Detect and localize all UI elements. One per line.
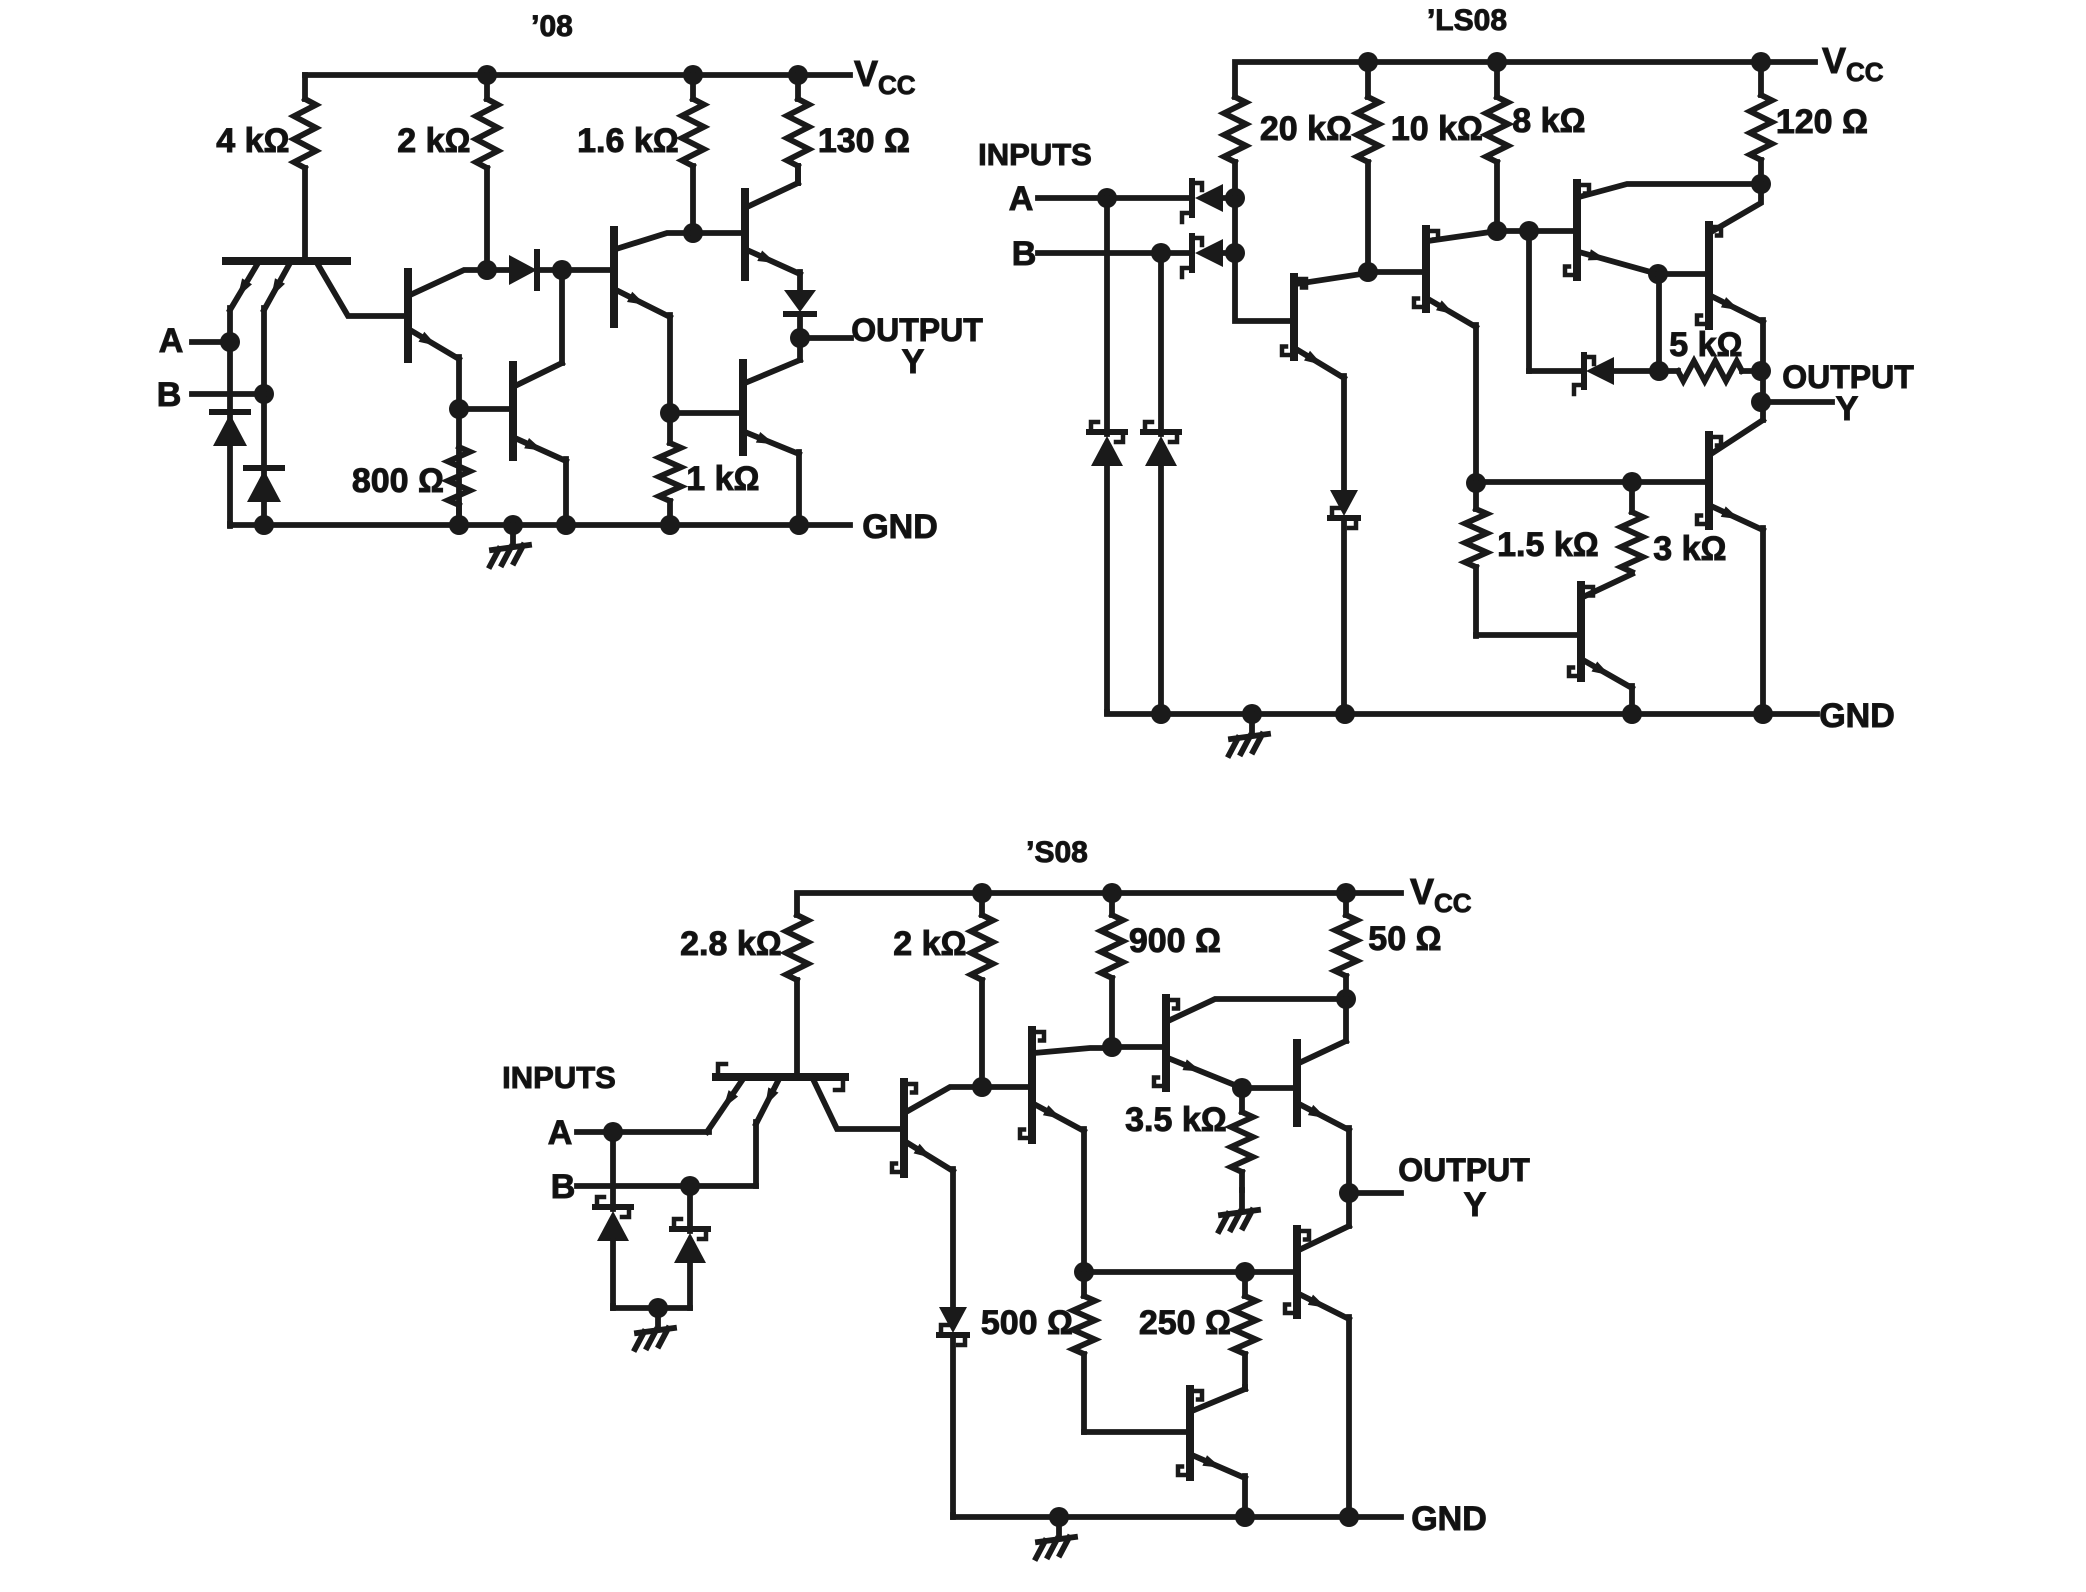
svg-text:2.8 kΩ: 2.8 kΩ: [680, 925, 782, 963]
resistor R6 1 kOhm: [659, 443, 681, 525]
transistor Q10 base bar (Darlington 2): [1697, 225, 1721, 326]
wire input A clamp ('LS08): [1104, 198, 1110, 434]
node GND tap: [503, 515, 523, 535]
svg-text:’LS08: ’LS08: [1427, 4, 1507, 37]
wire clamp diodes to ground: [613, 1306, 690, 1308]
transistor Q10 emitter: [1711, 296, 1763, 322]
node 500 top: [1074, 1262, 1094, 1282]
node: VCC/2k junction: [477, 65, 497, 85]
wire Q2 collector: [410, 270, 487, 295]
label R16 900 Ohm: [1129, 922, 1221, 960]
transistor Q2 emitter: [410, 330, 459, 359]
svg-text:GND: GND: [862, 508, 938, 546]
node 5k left: [1649, 361, 1669, 381]
label Y ('LS08): [1836, 390, 1859, 428]
transistor Q18 base bar (bottom output): [1285, 1229, 1309, 1315]
wire Q3 emitter down: [667, 315, 673, 443]
wire Q14 collector: [906, 1087, 982, 1112]
VCC rail ('S08): [797, 893, 1401, 915]
label Y ('08): [902, 343, 925, 381]
transistor Q11 emitter: [1711, 506, 1763, 530]
wire node to Q10 base: [1658, 271, 1709, 277]
label R6 1 kOhm: [686, 460, 759, 498]
wire Q17 emitter to output: [1346, 1128, 1352, 1193]
wire node to Q8 base: [1368, 269, 1426, 275]
wire input A ('S08): [577, 1129, 709, 1135]
resistor R11 5 kOhm: [1659, 361, 1761, 381]
wire node to Q4 base: [693, 230, 745, 236]
svg-text:3 kΩ: 3 kΩ: [1653, 530, 1726, 568]
node VCC/10k: [1358, 52, 1378, 72]
ground symbol (rail 'S08): [1036, 1517, 1075, 1558]
svg-text:20 kΩ: 20 kΩ: [1260, 110, 1352, 148]
circuit 'S08 title: [1026, 836, 1088, 869]
svg-text:OUTPUT: OUTPUT: [1398, 1152, 1530, 1188]
resistor R1 4 kOhm: [294, 75, 316, 259]
label R12 1.5 kOhm: [1497, 526, 1599, 564]
transistor Q14 base bar: [892, 1082, 916, 1174]
resistor R5 800 Ohm: [448, 447, 470, 525]
label R2 2 kOhm: [397, 122, 470, 160]
diode CR2 (input B clamp): [246, 468, 282, 502]
wire Q4 collector: [747, 166, 798, 207]
schottky diode Q7 emitter: [1330, 490, 1358, 714]
node output Y ('S08): [1339, 1183, 1359, 1203]
node VCC/50: [1336, 883, 1356, 903]
wire squaring top ('S08): [1084, 1269, 1245, 1275]
transistor Q13 base bar ('S08 input): [716, 1064, 845, 1090]
diode CR4 (output): [784, 290, 816, 338]
svg-text:B: B: [1012, 235, 1037, 273]
wire Q8 collector: [1428, 231, 1497, 241]
wire node to Q17 base: [1242, 1085, 1297, 1091]
transistor Q15 emitter: [1034, 1104, 1084, 1131]
VCC rail ('LS08): [1235, 62, 1815, 97]
wire Q12 collector: [1583, 574, 1632, 597]
label R20 250 Ohm: [1139, 1304, 1231, 1342]
transistor Q6 base bar: [739, 363, 747, 452]
svg-text:50 Ω: 50 Ω: [1368, 920, 1441, 958]
transistor Q3 base bar: [610, 230, 618, 324]
wire input B ('S08): [577, 1183, 756, 1189]
transistor Q16 base bar: [1154, 998, 1178, 1088]
VCC rail ('08): [305, 72, 850, 78]
wire input B: [192, 391, 264, 397]
wire Q11 collector: [1711, 420, 1763, 454]
transistor Q9 emitter: [1579, 249, 1658, 274]
transistor Q17 base bar (top output): [1293, 1043, 1301, 1123]
node Q15 collector / 900: [1102, 1037, 1122, 1057]
svg-text:CC: CC: [878, 70, 916, 100]
label R9 8 kOhm: [1512, 102, 1585, 140]
VCC label ('08): [854, 53, 916, 100]
label input B ('S08): [551, 1168, 576, 1206]
node 3k top: [1622, 472, 1642, 492]
transistor Q1 emitter 2: [264, 263, 290, 310]
label R19 500 Ohm: [981, 1304, 1073, 1342]
node Q3 collector / 1.6k: [683, 223, 703, 243]
node Q2 collector / 2k: [477, 260, 497, 280]
wire Q5 emitter down: [563, 459, 569, 525]
node 800 Ohm bottom: [449, 515, 469, 535]
wire Q3 collector: [616, 233, 693, 249]
resistor R18 3.5 kOhm: [1231, 1088, 1253, 1190]
transistor Q13 emitter 2: [756, 1079, 779, 1124]
svg-text:10 kΩ: 10 kΩ: [1391, 110, 1483, 148]
svg-text:900 Ω: 900 Ω: [1129, 922, 1221, 960]
wire Q6 collector: [745, 338, 800, 383]
transistor Q6 emitter: [745, 432, 799, 454]
resistor R16 900 Ohm: [1101, 893, 1123, 1047]
wire Q11 emitter to GND: [1760, 528, 1766, 714]
schottky clamp diode A ('LS08): [1089, 422, 1125, 713]
node VCC/2k ('S08): [972, 883, 992, 903]
node output Y ('08): [790, 328, 810, 348]
node 800 Ohm top: [449, 399, 469, 419]
node Q9 collector / 120: [1751, 174, 1771, 194]
svg-text:130 Ω: 130 Ω: [818, 122, 910, 160]
transistor Q4 emitter: [747, 250, 800, 274]
wire 1.5k bottom to Q12 base: [1476, 632, 1581, 638]
wire emitter2 to input B: [753, 1122, 759, 1186]
node Q9 emitter / 5k branch: [1648, 264, 1668, 284]
svg-text:INPUTS: INPUTS: [978, 137, 1092, 172]
wire 20k to Q1 base: [1235, 198, 1294, 321]
schottky diode feedback ('LS08): [1529, 355, 1659, 394]
transistor Q16 emitter: [1168, 1058, 1242, 1088]
ground symbol ('LS08): [1229, 714, 1268, 755]
label R15 2 kOhm: [893, 925, 966, 963]
node Q6 emitter / GND: [789, 515, 809, 535]
transistor Q11 base bar (LS top output): [1697, 435, 1721, 526]
node input B ('LS08): [1151, 243, 1171, 263]
svg-text:INPUTS: INPUTS: [502, 1060, 616, 1095]
transistor Q2 base bar: [404, 272, 412, 359]
svg-text:CC: CC: [1434, 888, 1472, 918]
GND rail ('LS08): [1107, 712, 1817, 714]
node input A: [220, 332, 240, 352]
transistor Q13 emitter 1: [707, 1079, 743, 1132]
label R1 4 kOhm: [216, 122, 289, 160]
node Q14 collector / 2k: [972, 1077, 992, 1097]
svg-text:1.5 kΩ: 1.5 kΩ: [1497, 526, 1599, 564]
wire input B clamp ('LS08): [1158, 253, 1164, 434]
resistor R12 1.5 kOhm: [1465, 483, 1487, 636]
wire output Y ('08): [800, 335, 851, 341]
wire Q12 emitter to GND: [1629, 686, 1635, 714]
wire squaring net top: [1476, 479, 1632, 485]
schottky diode Q14 emitter: [939, 1307, 967, 1517]
svg-text:2 kΩ: 2 kΩ: [893, 925, 966, 963]
node VCC/8k: [1487, 52, 1507, 72]
resistor R14 2.8 kOhm: [786, 915, 808, 1075]
schottky clamp diode A ('S08): [595, 1132, 631, 1308]
transistor Q18 emitter: [1299, 1294, 1349, 1319]
label R14 2.8 kOhm: [680, 925, 782, 963]
resistor R17 50 Ohm: [1335, 893, 1357, 999]
wire Q1 collector to Q2 base: [317, 263, 408, 316]
wire node to Q6 base: [670, 410, 743, 416]
svg-text:3.5 kΩ: 3.5 kΩ: [1125, 1101, 1227, 1139]
wire node to Q5 base: [459, 406, 513, 412]
svg-text:800 Ω: 800 Ω: [352, 462, 444, 500]
label input B: [157, 376, 182, 414]
label input A ('S08): [548, 1114, 573, 1152]
transistor Q5 base bar: [509, 365, 517, 457]
svg-text:B: B: [157, 376, 182, 414]
wire Q13 collector to Q14 base: [813, 1079, 904, 1129]
wire Q8 emitter to 1.5k: [1473, 325, 1479, 484]
transistor Q7 emitter: [1296, 349, 1344, 378]
wire Q15 collector: [1034, 1048, 1112, 1053]
wire 500 bottom to Q19 base: [1084, 1429, 1190, 1435]
node GND tap ('LS08): [1242, 704, 1262, 724]
label GND ('08): [862, 508, 938, 546]
label R18 3.5 kOhm: [1125, 1101, 1227, 1139]
wire Q16 collector: [1168, 999, 1346, 1021]
resistor R7 20 kOhm: [1224, 97, 1246, 198]
transistor Q5 emitter: [515, 438, 566, 461]
node hold/5k branch: [1519, 221, 1539, 241]
wire node to Q11 base: [1632, 479, 1709, 485]
svg-text:Y: Y: [1836, 390, 1859, 428]
node 1k bottom: [660, 515, 680, 535]
wire Q10 emitter to output: [1760, 320, 1766, 420]
svg-text:’S08: ’S08: [1026, 836, 1088, 869]
node A diode / 20k: [1225, 188, 1245, 208]
node Q5 emitter / GND: [556, 515, 576, 535]
label OUTPUT ('LS08): [1782, 359, 1914, 395]
svg-text:’08: ’08: [531, 10, 573, 43]
svg-text:CC: CC: [1846, 57, 1884, 87]
node GND Q18: [1339, 1507, 1359, 1527]
wire output Y ('S08): [1349, 1190, 1401, 1196]
label INPUTS ('LS08): [978, 137, 1092, 172]
node 1.5k top: [1466, 473, 1486, 493]
svg-text:4 kΩ: 4 kΩ: [216, 122, 289, 160]
wire output Y ('LS08): [1761, 399, 1832, 405]
svg-text:GND: GND: [1411, 1500, 1487, 1538]
svg-text:A: A: [1009, 180, 1034, 218]
label OUTPUT ('08): [851, 312, 983, 348]
schottky clamp diode B ('LS08): [1143, 422, 1179, 713]
label R11 5 kOhm: [1669, 326, 1742, 364]
transistor Q8 emitter: [1428, 299, 1476, 327]
node input A ('LS08): [1097, 188, 1117, 208]
transistor Q15 base bar: [1020, 1030, 1044, 1140]
wire Q17 collector: [1299, 999, 1346, 1063]
label R13 3 kOhm: [1653, 530, 1726, 568]
svg-text:120 Ω: 120 Ω: [1776, 103, 1868, 141]
wire Q7 emitter to diode: [1341, 376, 1347, 490]
transistor Q12 base bar (squaring): [1569, 585, 1593, 678]
label input B ('LS08): [1012, 235, 1037, 273]
diode CR3 (between stages): [487, 252, 562, 288]
ground symbol (input clamps 'S08): [635, 1308, 674, 1349]
label input A ('LS08): [1009, 180, 1034, 218]
wire Q14 emitter down: [950, 1169, 956, 1307]
diode CR1 (input A clamp): [212, 412, 248, 446]
wire Q15 emitter down: [1081, 1129, 1087, 1274]
ground symbol ('08): [490, 525, 529, 566]
svg-text:V: V: [1410, 871, 1434, 912]
resistor R8 10 kOhm: [1357, 62, 1379, 272]
svg-text:1.6 kΩ: 1.6 kΩ: [577, 122, 679, 160]
node GND/B-diode: [254, 515, 274, 535]
wire Q9emitter node to 5k node: [1656, 274, 1662, 371]
node Q8 collector / 8k: [1487, 221, 1507, 241]
wire input B ('LS08): [1038, 250, 1189, 256]
VCC label ('S08): [1410, 871, 1472, 918]
transistor Q12 emitter: [1583, 660, 1632, 688]
wire Q18 base node: [1245, 1269, 1297, 1275]
node 1k top: [660, 403, 680, 423]
svg-text:V: V: [1822, 40, 1846, 81]
wire to Q3 base: [562, 267, 614, 273]
resistor R10 120 Ohm: [1750, 62, 1772, 184]
transistor Q14 emitter: [906, 1142, 953, 1171]
label INPUTS ('S08): [502, 1060, 616, 1095]
svg-text:B: B: [551, 1168, 576, 1206]
wire Q19 emitter to GND: [1242, 1476, 1248, 1517]
transistor Q19 emitter: [1192, 1455, 1245, 1478]
node GND Q12: [1622, 704, 1642, 724]
svg-text:Y: Y: [902, 343, 925, 381]
wire Q1 emitter1 to input A / diode: [227, 308, 233, 526]
node GND B clamp: [1151, 704, 1171, 724]
node VCC/900: [1102, 883, 1122, 903]
wire node to Q15 base: [982, 1084, 1032, 1090]
wire Q6 emitter down: [796, 452, 802, 525]
svg-text:1 kΩ: 1 kΩ: [686, 460, 759, 498]
node 5k right / output: [1751, 361, 1771, 381]
svg-text:5 kΩ: 5 kΩ: [1669, 326, 1742, 364]
wire Q5 collector: [515, 270, 562, 386]
node GND Q11: [1753, 704, 1773, 724]
svg-text:A: A: [548, 1114, 573, 1152]
transistor Q7 base bar (LS input): [1282, 277, 1306, 357]
wire Q10 collector: [1711, 184, 1761, 232]
wire Q18 collector: [1299, 1226, 1349, 1250]
transistor Q1 base bar: [226, 257, 347, 265]
svg-text:A: A: [159, 322, 184, 360]
label R7 20 kOhm: [1260, 110, 1352, 148]
wire node to Q9 base: [1529, 228, 1577, 234]
resistor R19 500 Ohm: [1073, 1274, 1095, 1432]
node Q16 emitter / 3.5k: [1232, 1078, 1252, 1098]
label R17 50 Ohm: [1368, 920, 1441, 958]
transistor Q3 emitter: [616, 290, 670, 317]
circuit '08 title: [531, 10, 573, 43]
label GND ('S08): [1411, 1500, 1487, 1538]
node GND Q7 diode: [1335, 704, 1355, 724]
resistor R20 250 Ohm: [1234, 1272, 1256, 1387]
transistor Q8 base bar (LS 2nd): [1414, 229, 1438, 309]
GND rail ('S08): [953, 1515, 1401, 1517]
schottky clamp diode B ('S08): [672, 1186, 708, 1308]
transistor Q17 emitter: [1299, 1104, 1349, 1130]
transistor Q1 emitter 1: [230, 263, 258, 310]
svg-text:250 Ω: 250 Ω: [1139, 1304, 1231, 1342]
node: VCC/1.6k junction: [683, 65, 703, 85]
node input B: [254, 384, 274, 404]
label R5 800 Ohm: [352, 462, 444, 500]
label GND ('LS08): [1819, 697, 1895, 735]
VCC label ('LS08): [1822, 40, 1884, 87]
node output Y ('LS08): [1751, 392, 1771, 412]
resistor R9 8 kOhm: [1486, 62, 1508, 231]
wire Q4 emitter to diode: [797, 272, 803, 290]
svg-text:500 Ω: 500 Ω: [981, 1304, 1073, 1342]
node diode/Q5 collector: [552, 260, 572, 280]
label R3 1.6 kOhm: [577, 122, 679, 160]
wire Q7 collector: [1296, 273, 1368, 284]
svg-text:Y: Y: [1464, 1186, 1487, 1224]
resistor R2 2 kOhm: [476, 75, 498, 269]
transistor Q19 base bar (squaring 'S08): [1178, 1389, 1202, 1477]
wire input A ('LS08): [1038, 195, 1189, 201]
wire Q1 emitter2 to input B / diode: [261, 308, 267, 525]
resistor R15 2 kOhm ('S08): [971, 893, 993, 1087]
ground symbol (3.5k 'S08): [1219, 1190, 1258, 1231]
svg-text:GND: GND: [1819, 697, 1895, 735]
svg-text:2 kΩ: 2 kΩ: [397, 122, 470, 160]
label Y ('S08): [1464, 1186, 1487, 1224]
label R4 130 Ohm: [818, 122, 910, 160]
wire 8k node to hold node: [1497, 228, 1529, 234]
label OUTPUT ('S08): [1398, 1152, 1530, 1188]
node B diode / 20k: [1225, 243, 1245, 263]
node Q18 base / 250: [1235, 1262, 1255, 1282]
node VCC/120: [1751, 52, 1771, 72]
resistor R13 3 kOhm: [1621, 482, 1643, 572]
schottky diode input A: [1182, 181, 1237, 222]
node Q7 collector / 10k: [1358, 262, 1378, 282]
circuit 'LS08 title: [1427, 4, 1507, 37]
wire Q2 emitter down: [456, 357, 462, 525]
wire hold node down: [1526, 231, 1532, 371]
svg-text:V: V: [854, 53, 878, 94]
node input B ('S08): [680, 1176, 700, 1196]
resistor R3 1.6 kOhm: [682, 75, 704, 232]
svg-text:8 kΩ: 8 kΩ: [1512, 102, 1585, 140]
resistor R4 130 Ohm: [787, 75, 809, 183]
wire input A: [192, 339, 230, 345]
wire Q19 collector: [1192, 1387, 1245, 1411]
wire Q9 collector: [1579, 184, 1761, 197]
label R10 120 Ohm: [1776, 103, 1868, 141]
node Q16 collector / 50: [1336, 989, 1356, 1009]
node: VCC/130 junction: [788, 65, 808, 85]
node input A ('S08): [603, 1122, 623, 1142]
node GND Q19: [1235, 1507, 1255, 1527]
schottky diode input B: [1182, 236, 1237, 277]
transistor Q9 base bar (Darlington 1): [1565, 183, 1589, 277]
node GND tap ('S08): [1049, 1507, 1069, 1527]
wire output to Q18 collector: [1346, 1193, 1352, 1226]
node clamp ground: [648, 1298, 668, 1318]
wire Q18 emitter to GND: [1346, 1317, 1352, 1517]
GND rail ('08): [230, 524, 850, 525]
label input A: [159, 322, 184, 360]
transistor Q4 base bar: [741, 192, 749, 277]
label R8 10 kOhm: [1391, 110, 1483, 148]
wire node to Q16 base: [1112, 1044, 1166, 1050]
